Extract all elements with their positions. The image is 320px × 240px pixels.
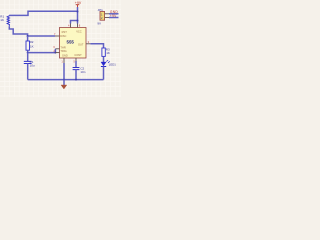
svg-text:+9V: +9V <box>75 1 82 5</box>
node junction C2 rail <box>75 79 77 81</box>
wire ground rail <box>28 79 104 81</box>
resistor R1 <box>7 15 9 26</box>
wire junction down to C1 <box>27 53 29 61</box>
svg-text:CONT: CONT <box>74 53 82 57</box>
pin 8 stub <box>77 24 79 28</box>
svg-text:10u: 10u <box>30 64 35 68</box>
pin 1 stub <box>63 58 65 63</box>
wire junction down to R2 <box>27 36 29 41</box>
wire R1 bottom to DIS <box>9 26 55 36</box>
node junction TRG <box>54 52 56 54</box>
background <box>0 0 121 97</box>
ground symbol <box>63 80 65 85</box>
capacitor C2 <box>73 68 80 70</box>
pin 4 stub <box>70 24 72 28</box>
wire junction to TRG pin <box>28 52 56 54</box>
pin 6 stub <box>55 48 59 50</box>
svg-text:VCC: VCC <box>76 30 82 34</box>
wire net GND stub <box>109 13 119 15</box>
wire TRG up to THR pin <box>54 49 56 53</box>
node junction on +9V rail <box>77 11 79 13</box>
wire OUT to R3 <box>90 44 103 48</box>
pin JP1-2 stub <box>105 17 109 19</box>
svg-text:+9V: +9V <box>110 14 117 18</box>
resistor R2 <box>26 41 30 50</box>
wire +9V rail: R1 top to VCC vertical <box>9 11 77 15</box>
svg-text:TRIG: TRIG <box>60 49 66 53</box>
svg-text:OUT: OUT <box>78 43 84 47</box>
node junction pin1 rail <box>63 79 65 81</box>
wire branch to pin 4 <box>71 21 78 24</box>
svg-text:1K: 1K <box>106 51 110 55</box>
capacitor C1 <box>24 61 32 63</box>
diode LED1 <box>101 62 106 66</box>
grid <box>0 0 121 97</box>
wire pin1 to ground rail <box>63 63 65 80</box>
svg-text:9V: 9V <box>97 22 101 26</box>
resistor R3 <box>102 48 105 56</box>
svg-text:R2: R2 <box>30 40 34 44</box>
wire R2 bottom to junction <box>27 50 29 52</box>
wire R3 to LED <box>103 56 105 62</box>
svg-text:RST: RST <box>62 30 68 34</box>
wire C2 bottom to rail <box>75 70 77 80</box>
svg-text:THR: THR <box>60 45 65 49</box>
pin 3 stub <box>86 43 90 45</box>
node junction THR/TRG/C1 <box>27 52 29 54</box>
node junction DIS/R2 <box>27 35 29 37</box>
wire LED to rail <box>103 67 105 80</box>
pin JP1-1 stub <box>105 13 109 15</box>
power symbol +9V <box>75 1 82 7</box>
node junction at pin4 branch <box>77 20 79 22</box>
connector JP1 <box>100 12 105 21</box>
svg-text:10n: 10n <box>80 70 85 74</box>
pin 2 stub <box>55 52 59 54</box>
svg-text:1K: 1K <box>30 45 34 49</box>
wire C1 bottom to ground rail <box>27 64 29 80</box>
pin 5 stub <box>75 58 77 61</box>
pin 7 stub <box>55 35 60 37</box>
svg-text:LED1: LED1 <box>109 62 116 66</box>
svg-text:555: 555 <box>67 39 75 44</box>
svg-text:1K: 1K <box>0 18 4 22</box>
svg-text:GND: GND <box>62 53 68 57</box>
svg-text:DISC: DISC <box>60 34 66 38</box>
wire VCC vertical down to pin 8 <box>77 7 79 24</box>
wire net +9V stub <box>109 17 119 19</box>
wire pin5 to C2 <box>75 61 77 67</box>
svg-text:JP1: JP1 <box>98 8 104 12</box>
op 555 IC U1 body <box>60 28 87 59</box>
